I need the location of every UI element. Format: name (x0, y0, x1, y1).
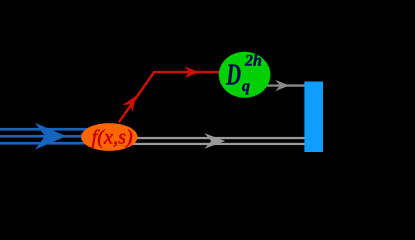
wire: red quark line diagonal segment (119, 72, 155, 122)
svg-text:q: q (242, 78, 250, 95)
svg-text:2h: 2h (244, 53, 262, 70)
arrowhead on incoming hadron line (35, 123, 67, 150)
wire: incoming hadron triple line (bottom) (0, 142, 110, 145)
arrowhead on gray quark line (275, 80, 289, 91)
arrowhead on remnant double line (204, 133, 225, 149)
wire: red quark line horizontal segment (153, 71, 232, 74)
svg-text:f(x,s): f(x,s) (92, 127, 133, 149)
svg-text:D: D (226, 57, 241, 92)
wire: outgoing remnant double line (upper) (120, 137, 305, 139)
arrowhead on diagonal quark line (122, 92, 141, 112)
wire: incoming hadron triple line (middle) (0, 135, 110, 138)
wire: incoming hadron triple line (top) (0, 128, 110, 131)
blob: parton distribution f(x,s) (orange ellipse) (81, 123, 137, 151)
arrowhead on horizontal quark line (184, 66, 199, 78)
blob: fragmentation function D (green ellipse) (219, 52, 271, 98)
wire: outgoing remnant double line (lower) (120, 143, 305, 145)
detector bar (blue rectangle) (304, 82, 323, 153)
wire: gray quark line to detector (250, 84, 305, 86)
